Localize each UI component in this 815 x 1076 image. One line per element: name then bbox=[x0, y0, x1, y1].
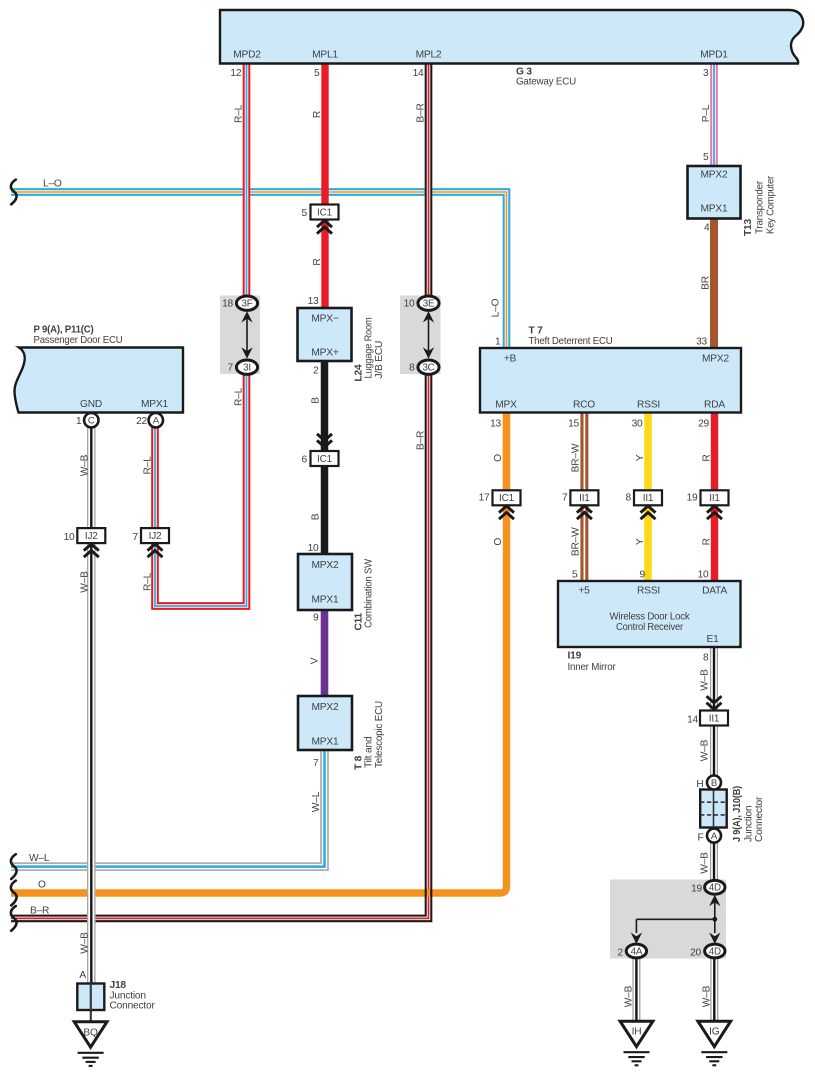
svg-text:P 9(A), P11(C): P 9(A), P11(C) bbox=[34, 325, 94, 336]
svg-text:B: B bbox=[311, 397, 322, 404]
svg-text:22: 22 bbox=[136, 416, 147, 427]
svg-text:L–O: L–O bbox=[491, 298, 502, 317]
svg-text:3F: 3F bbox=[241, 299, 252, 310]
svg-text:14: 14 bbox=[687, 715, 698, 726]
svg-text:Transponder: Transponder bbox=[755, 180, 766, 234]
svg-text:20: 20 bbox=[690, 948, 701, 959]
svg-text:19: 19 bbox=[687, 493, 698, 504]
svg-text:B: B bbox=[711, 778, 717, 789]
svg-text:W–B: W–B bbox=[80, 454, 91, 476]
svg-text:13: 13 bbox=[490, 418, 501, 429]
svg-text:IJ2: IJ2 bbox=[85, 531, 98, 542]
svg-text:B–R: B–R bbox=[30, 906, 49, 917]
svg-text:II1: II1 bbox=[643, 493, 654, 504]
svg-text:+5: +5 bbox=[578, 586, 590, 597]
svg-text:Connector: Connector bbox=[110, 1001, 156, 1012]
svg-text:MPX: MPX bbox=[495, 400, 517, 411]
svg-text:MPX1: MPX1 bbox=[312, 737, 339, 748]
svg-text:IG: IG bbox=[709, 1027, 720, 1038]
svg-text:Y: Y bbox=[635, 538, 646, 545]
svg-text:C: C bbox=[88, 416, 95, 427]
svg-text:17: 17 bbox=[479, 493, 490, 504]
svg-text:MPL1: MPL1 bbox=[312, 50, 338, 61]
svg-text:Connector: Connector bbox=[754, 796, 765, 842]
svg-text:15: 15 bbox=[568, 418, 579, 429]
svg-text:R–L: R–L bbox=[233, 104, 244, 123]
svg-text:A: A bbox=[79, 970, 86, 981]
svg-text:R–L: R–L bbox=[142, 456, 153, 475]
svg-text:Tilt and: Tilt and bbox=[364, 736, 375, 768]
svg-text:I19: I19 bbox=[568, 651, 582, 662]
svg-text:IC1: IC1 bbox=[317, 454, 333, 465]
svg-text:5: 5 bbox=[703, 152, 709, 163]
svg-text:4D: 4D bbox=[709, 883, 721, 894]
svg-text:4: 4 bbox=[704, 223, 710, 234]
svg-text:II1: II1 bbox=[709, 493, 720, 504]
svg-text:W–B: W–B bbox=[700, 669, 711, 691]
svg-text:MPX1: MPX1 bbox=[141, 399, 168, 410]
svg-text:W–L: W–L bbox=[29, 853, 50, 864]
svg-text:8: 8 bbox=[409, 363, 415, 374]
svg-text:T 7: T 7 bbox=[529, 326, 544, 337]
svg-text:1: 1 bbox=[495, 337, 501, 348]
svg-text:A: A bbox=[711, 831, 718, 842]
svg-text:R: R bbox=[312, 258, 323, 265]
svg-text:3E: 3E bbox=[423, 299, 435, 310]
svg-text:30: 30 bbox=[632, 418, 643, 429]
svg-text:II1: II1 bbox=[579, 493, 590, 504]
svg-text:R–L: R–L bbox=[142, 572, 153, 591]
svg-text:R: R bbox=[312, 111, 323, 118]
svg-text:MPX2: MPX2 bbox=[312, 702, 339, 713]
svg-text:8: 8 bbox=[626, 493, 632, 504]
svg-text:IJ2: IJ2 bbox=[149, 531, 162, 542]
svg-text:MPX−: MPX− bbox=[311, 314, 338, 325]
svg-text:IH: IH bbox=[632, 1027, 642, 1038]
svg-text:Combination SW: Combination SW bbox=[364, 558, 375, 628]
svg-text:DATA: DATA bbox=[702, 586, 727, 597]
svg-text:Gateway ECU: Gateway ECU bbox=[516, 77, 576, 88]
svg-text:12: 12 bbox=[230, 68, 241, 79]
svg-text:Junction: Junction bbox=[744, 806, 755, 842]
svg-text:J18: J18 bbox=[110, 980, 127, 991]
svg-text:7: 7 bbox=[228, 363, 234, 374]
svg-text:7: 7 bbox=[313, 758, 319, 769]
svg-text:W–B: W–B bbox=[700, 852, 711, 874]
svg-text:7: 7 bbox=[562, 493, 568, 504]
svg-text:O: O bbox=[38, 880, 46, 891]
svg-text:J 9(A), J10(B): J 9(A), J10(B) bbox=[732, 786, 743, 842]
svg-text:3: 3 bbox=[703, 68, 709, 79]
svg-text:BR–W: BR–W bbox=[571, 527, 582, 556]
svg-text:W–L: W–L bbox=[311, 791, 322, 812]
svg-text:W–B: W–B bbox=[80, 571, 91, 593]
svg-text:T13: T13 bbox=[743, 219, 754, 236]
svg-text:MPX1: MPX1 bbox=[312, 595, 339, 606]
svg-text:W–B: W–B bbox=[700, 739, 711, 761]
svg-text:9: 9 bbox=[640, 570, 646, 581]
svg-text:+B: +B bbox=[504, 354, 517, 365]
svg-text:2: 2 bbox=[618, 948, 624, 959]
svg-text:4A: 4A bbox=[631, 946, 643, 957]
svg-text:BQ: BQ bbox=[83, 1027, 98, 1038]
svg-text:33: 33 bbox=[696, 337, 707, 348]
svg-text:RCO: RCO bbox=[573, 400, 595, 411]
svg-text:5: 5 bbox=[302, 208, 308, 219]
svg-text:MPX2: MPX2 bbox=[701, 170, 728, 181]
svg-text:RSSI: RSSI bbox=[637, 586, 660, 597]
svg-text:10: 10 bbox=[698, 570, 709, 581]
svg-text:MPX2: MPX2 bbox=[312, 560, 339, 571]
svg-text:B: B bbox=[311, 513, 322, 520]
svg-text:MPX2: MPX2 bbox=[702, 354, 729, 365]
svg-text:L–O: L–O bbox=[43, 179, 62, 190]
svg-text:J/B ECU: J/B ECU bbox=[374, 341, 385, 379]
svg-text:Telescopic ECU: Telescopic ECU bbox=[374, 701, 385, 768]
svg-text:W–B: W–B bbox=[702, 985, 713, 1007]
svg-text:II1: II1 bbox=[709, 713, 720, 724]
svg-text:Theft Deterrent ECU: Theft Deterrent ECU bbox=[529, 336, 613, 347]
svg-text:7: 7 bbox=[133, 532, 139, 543]
svg-text:MPX+: MPX+ bbox=[311, 348, 338, 359]
svg-text:W–B: W–B bbox=[624, 985, 635, 1007]
svg-text:1: 1 bbox=[76, 416, 82, 427]
svg-text:3C: 3C bbox=[422, 363, 434, 374]
svg-text:E1: E1 bbox=[706, 634, 719, 645]
svg-text:RSSI: RSSI bbox=[637, 400, 660, 411]
svg-text:18: 18 bbox=[222, 299, 233, 310]
svg-text:Wireless Door Lock: Wireless Door Lock bbox=[610, 612, 691, 623]
svg-text:GND: GND bbox=[80, 399, 102, 410]
svg-text:5: 5 bbox=[314, 68, 320, 79]
svg-text:Luggage Room: Luggage Room bbox=[364, 318, 375, 379]
svg-text:MPL2: MPL2 bbox=[416, 50, 442, 61]
svg-text:2: 2 bbox=[313, 366, 319, 377]
svg-text:B–R: B–R bbox=[415, 103, 426, 122]
svg-text:13: 13 bbox=[308, 296, 319, 307]
svg-text:B–R: B–R bbox=[415, 431, 426, 450]
svg-text:P–L: P–L bbox=[701, 104, 712, 122]
svg-text:6: 6 bbox=[302, 455, 308, 466]
svg-text:29: 29 bbox=[698, 418, 709, 429]
svg-text:Y: Y bbox=[635, 454, 646, 461]
svg-text:R: R bbox=[701, 454, 712, 461]
svg-text:BR: BR bbox=[701, 276, 712, 290]
svg-text:O: O bbox=[493, 538, 504, 546]
svg-text:10: 10 bbox=[404, 299, 415, 310]
svg-text:Key Computer: Key Computer bbox=[766, 175, 777, 234]
svg-text:Inner Mirror: Inner Mirror bbox=[568, 662, 617, 673]
svg-text:H: H bbox=[696, 779, 703, 790]
svg-text:4D: 4D bbox=[709, 946, 721, 957]
svg-text:Control Receiver: Control Receiver bbox=[616, 622, 684, 633]
svg-text:9: 9 bbox=[313, 613, 319, 624]
svg-text:10: 10 bbox=[64, 532, 75, 543]
svg-text:R–L: R–L bbox=[233, 387, 244, 406]
svg-text:MPD1: MPD1 bbox=[700, 50, 728, 61]
svg-text:R: R bbox=[701, 538, 712, 545]
svg-text:19: 19 bbox=[691, 884, 702, 895]
svg-text:A: A bbox=[153, 416, 160, 427]
svg-text:W–B: W–B bbox=[80, 932, 91, 954]
svg-text:3I: 3I bbox=[243, 363, 251, 374]
svg-text:10: 10 bbox=[308, 543, 319, 554]
svg-text:MPD2: MPD2 bbox=[233, 50, 261, 61]
svg-text:IC1: IC1 bbox=[499, 493, 515, 504]
svg-text:Passenger Door ECU: Passenger Door ECU bbox=[34, 335, 123, 346]
svg-text:14: 14 bbox=[413, 68, 424, 79]
svg-text:5: 5 bbox=[572, 570, 578, 581]
svg-text:8: 8 bbox=[703, 653, 709, 664]
svg-text:IC1: IC1 bbox=[317, 207, 333, 218]
svg-text:RDA: RDA bbox=[704, 400, 725, 411]
svg-text:MPX1: MPX1 bbox=[701, 204, 728, 215]
svg-text:F: F bbox=[697, 833, 703, 844]
svg-text:O: O bbox=[493, 454, 504, 462]
svg-text:V: V bbox=[310, 657, 321, 664]
svg-text:BR–W: BR–W bbox=[571, 443, 582, 472]
